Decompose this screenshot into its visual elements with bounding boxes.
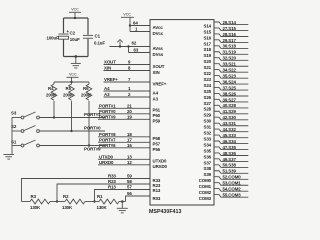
svg-text:53.COM1: 53.COM1 xyxy=(223,181,242,186)
svg-text:27.S15: 27.S15 xyxy=(223,26,237,31)
pin 30 S18 xyxy=(203,44,248,53)
svg-text:R13: R13 xyxy=(108,185,116,190)
resistor R3 130K xyxy=(22,194,51,210)
svg-text:48.S36: 48.S36 xyxy=(223,151,237,156)
svg-text:0.1uF: 0.1uF xyxy=(94,40,105,45)
svg-text:VCC: VCC xyxy=(123,12,131,16)
pin 31 S19 xyxy=(203,50,248,59)
power flag VCC1 xyxy=(69,7,81,18)
svg-text:S14: S14 xyxy=(203,23,211,28)
svg-text:31.S19: 31.S19 xyxy=(223,50,237,55)
svg-text:S17: S17 xyxy=(203,41,211,46)
svg-text:S36: S36 xyxy=(203,154,211,159)
svg-text:COM3: COM3 xyxy=(199,196,212,201)
wire net PORT#7 pin xyxy=(98,141,150,143)
resistor R1 130K xyxy=(97,194,120,210)
wire AVss/DVss xyxy=(110,47,151,53)
svg-text:51.S39: 51.S39 xyxy=(223,169,237,174)
svg-text:18: 18 xyxy=(127,132,132,137)
svg-text:S15: S15 xyxy=(203,29,211,34)
svg-text:30.S18: 30.S18 xyxy=(223,44,237,49)
svg-text:AVss: AVss xyxy=(153,46,164,51)
pin 38 S26 xyxy=(203,91,248,100)
IC left pin name labels xyxy=(153,25,168,201)
svg-text:43.S31: 43.S31 xyxy=(223,121,237,126)
pin 29 S17 xyxy=(203,38,248,47)
svg-text:VREF+: VREF+ xyxy=(104,77,118,82)
svg-text:52.COM0: 52.COM0 xyxy=(223,175,242,180)
svg-text:XIN: XIN xyxy=(153,70,160,75)
svg-text:37.S25: 37.S25 xyxy=(223,85,237,90)
svg-text:40.S28: 40.S28 xyxy=(223,103,237,108)
svg-text:PORT#1: PORT#1 xyxy=(84,112,101,117)
pin 47 S35 xyxy=(203,145,248,154)
resistor R2 130K xyxy=(62,194,85,210)
node A (cap loop top) xyxy=(74,17,76,19)
svg-text:P60: P60 xyxy=(153,113,161,118)
svg-text:C2: C2 xyxy=(70,31,76,36)
svg-text:41.S29: 41.S29 xyxy=(223,109,237,114)
pin 32 S20 xyxy=(203,56,248,65)
svg-text:R03: R03 xyxy=(153,196,161,201)
wire row1 (PORT#1) xyxy=(40,117,106,119)
svg-text:49.S37: 49.S37 xyxy=(223,157,237,162)
svg-text:S21: S21 xyxy=(203,65,211,70)
svg-text:PORT#0: PORT#0 xyxy=(84,126,101,131)
svg-text:19: 19 xyxy=(127,114,132,119)
wire AVcc xyxy=(130,25,150,27)
svg-text:R1: R1 xyxy=(97,194,103,199)
svg-text:PORT#1: PORT#1 xyxy=(99,103,116,108)
svg-text:PORT#9: PORT#9 xyxy=(99,114,116,119)
pin 48 S36 xyxy=(203,151,248,160)
wire cap loop right edge xyxy=(87,18,89,57)
pin 54 COM2 xyxy=(199,187,249,196)
ground G1 below cap loop xyxy=(71,57,81,69)
svg-text:54.COM2: 54.COM2 xyxy=(223,187,242,192)
svg-text:XOUT: XOUT xyxy=(104,60,116,65)
node B (cap loop bottom) xyxy=(74,55,77,58)
wire VREF+ xyxy=(104,81,151,83)
wire cap loop left edge xyxy=(63,18,65,57)
power flag VCC3 (pullups) xyxy=(67,72,79,82)
pin 26 S14 xyxy=(203,20,248,29)
pin 34 S22 xyxy=(203,68,248,77)
svg-text:S38: S38 xyxy=(203,166,211,171)
node I (R5 to row2) xyxy=(70,130,72,132)
resistor R5 200K xyxy=(63,82,74,131)
svg-text:28.S16: 28.S16 xyxy=(223,32,237,37)
wire net PORT#9 pin xyxy=(98,118,150,120)
pin 52 COM0 xyxy=(199,175,249,184)
svg-text:13: 13 xyxy=(127,154,132,159)
svg-text:S24: S24 xyxy=(203,83,211,88)
pin 27 S15 xyxy=(203,26,248,35)
wire net PORT#1 pin xyxy=(98,107,150,109)
pin 40 S28 xyxy=(203,103,248,112)
svg-text:32.S20: 32.S20 xyxy=(223,56,237,61)
svg-text:UTXD0: UTXD0 xyxy=(153,159,168,164)
pin 28 S16 xyxy=(203,32,248,41)
svg-text:S23: S23 xyxy=(203,77,211,82)
svg-text:20: 20 xyxy=(127,109,132,114)
pin 36 S24 xyxy=(203,79,248,88)
capacitor C2 10uF electrolytic xyxy=(47,29,81,42)
svg-text:57: 57 xyxy=(127,185,132,190)
svg-text:S22: S22 xyxy=(203,71,211,76)
svg-text:36.S24: 36.S24 xyxy=(223,79,237,84)
pin 42 S30 xyxy=(203,115,248,124)
svg-text:XOUT: XOUT xyxy=(153,64,165,69)
svg-text:R3: R3 xyxy=(31,194,37,199)
svg-text:R13: R13 xyxy=(153,188,161,193)
svg-text:AVcc: AVcc xyxy=(153,25,164,30)
resistor R4 200K xyxy=(46,82,57,118)
svg-text:DVss: DVss xyxy=(153,52,164,57)
pin 35 S23 xyxy=(203,74,248,83)
svg-text:COM2: COM2 xyxy=(199,190,212,195)
svg-text:COM1: COM1 xyxy=(199,184,212,189)
svg-text:S20: S20 xyxy=(203,59,211,64)
svg-text:PORT#8: PORT#8 xyxy=(99,132,116,137)
svg-text:R4: R4 xyxy=(48,86,54,91)
svg-text:130K: 130K xyxy=(97,205,108,210)
svg-text:29.S17: 29.S17 xyxy=(223,38,237,43)
svg-text:200K: 200K xyxy=(81,93,92,98)
wire R13 net xyxy=(95,190,151,202)
svg-text:S33: S33 xyxy=(203,137,211,142)
pin 50 S38 xyxy=(203,163,248,172)
node K (pullup rail) xyxy=(70,81,72,83)
wire net PORT#0 pin xyxy=(98,113,150,115)
svg-text:PORT#9: PORT#9 xyxy=(84,147,101,152)
node D (AVss junction) xyxy=(127,45,129,47)
ground G3 (switch bus) xyxy=(3,150,14,159)
wire UTXD0 xyxy=(98,158,150,160)
wire XOUT xyxy=(104,64,151,66)
wire R33 net xyxy=(22,179,151,202)
wire ladder seg1 xyxy=(50,201,65,203)
svg-text:S27: S27 xyxy=(203,101,211,106)
svg-text:42.S30: 42.S30 xyxy=(223,115,237,120)
switch S2 xyxy=(11,124,39,132)
svg-text:59: 59 xyxy=(127,174,132,179)
svg-text:P57: P57 xyxy=(153,142,161,147)
svg-text:56: 56 xyxy=(127,191,132,196)
op IC U1 MSP430F413 xyxy=(150,20,214,205)
svg-text:130K: 130K xyxy=(62,205,73,210)
svg-text:63: 63 xyxy=(134,48,139,53)
svg-text:S16: S16 xyxy=(203,35,211,40)
wire R23 net xyxy=(57,184,150,202)
wire net PORT#8 pin xyxy=(98,136,150,138)
svg-text:R23: R23 xyxy=(108,179,116,184)
wire A4 xyxy=(104,90,151,92)
svg-text:64: 64 xyxy=(133,21,138,26)
svg-text:R5: R5 xyxy=(66,86,72,91)
svg-text:PORT#7: PORT#7 xyxy=(99,137,116,142)
svg-text:A3: A3 xyxy=(104,92,110,97)
svg-text:34.S22: 34.S22 xyxy=(223,68,237,73)
svg-text:S32: S32 xyxy=(203,131,211,136)
wire DVcc xyxy=(130,31,150,33)
svg-text:44.S32: 44.S32 xyxy=(223,127,237,132)
svg-text:S18: S18 xyxy=(203,47,211,52)
svg-text:P59: P59 xyxy=(153,119,161,124)
wire R03 net xyxy=(126,196,151,202)
node H (R4 to row1) xyxy=(53,116,55,118)
svg-text:62: 62 xyxy=(132,41,137,46)
resistor R6 200K xyxy=(81,82,92,146)
wire ladder seg2 xyxy=(85,201,99,203)
svg-text:130K: 130K xyxy=(30,205,41,210)
svg-text:58: 58 xyxy=(127,179,132,184)
svg-text:P58: P58 xyxy=(153,136,161,141)
wire ladder seg3 xyxy=(119,201,126,203)
pin 45 S33 xyxy=(203,133,248,142)
svg-text:VCC: VCC xyxy=(69,72,77,76)
svg-text:35.S23: 35.S23 xyxy=(223,74,237,79)
switch S3 xyxy=(11,111,39,119)
svg-text:200K: 200K xyxy=(63,93,74,98)
svg-text:50.S38: 50.S38 xyxy=(223,163,237,168)
svg-text:S39: S39 xyxy=(203,172,211,177)
svg-text:47.S35: 47.S35 xyxy=(223,145,237,150)
wire pullup rail xyxy=(54,81,89,83)
svg-text:200K: 200K xyxy=(46,93,57,98)
wire XIN xyxy=(104,70,151,72)
svg-text:39.S27: 39.S27 xyxy=(223,97,237,102)
svg-text:S26: S26 xyxy=(203,95,211,100)
ground G2 (ladder) xyxy=(117,202,128,213)
svg-text:MSP430F413: MSP430F413 xyxy=(149,209,181,215)
svg-text:17: 17 xyxy=(127,137,132,142)
svg-text:COM0: COM0 xyxy=(199,178,212,183)
pin 39 S27 xyxy=(203,97,248,106)
svg-text:21: 21 xyxy=(127,103,132,108)
svg-text:S19: S19 xyxy=(203,53,211,58)
svg-text:S3: S3 xyxy=(11,111,17,116)
pin 51 S39 xyxy=(203,169,248,178)
svg-text:10uF: 10uF xyxy=(70,37,80,42)
svg-text:UTXD0: UTXD0 xyxy=(99,154,114,159)
wire switch bus xyxy=(11,118,13,151)
svg-text:26.S14: 26.S14 xyxy=(223,20,237,25)
wire row3 (PORT#9) xyxy=(40,145,106,147)
wire cap loop top edge xyxy=(64,17,89,19)
svg-text:38.S26: 38.S26 xyxy=(223,91,237,96)
svg-text:S37: S37 xyxy=(203,160,211,165)
svg-text:100uF: 100uF xyxy=(47,35,60,40)
svg-text:S35: S35 xyxy=(203,148,211,153)
svg-text:33.S21: 33.S21 xyxy=(223,62,237,67)
switch S1 xyxy=(11,140,39,147)
power arrow (AVss tie) xyxy=(117,40,122,48)
svg-text:45.S33: 45.S33 xyxy=(223,133,237,138)
pin 53 COM1 xyxy=(199,181,249,190)
svg-text:S29: S29 xyxy=(203,113,211,118)
node F (R23 tap) xyxy=(56,200,58,202)
svg-text:A4: A4 xyxy=(153,90,159,95)
wire cap loop bottom edge xyxy=(64,56,89,58)
svg-text:C1: C1 xyxy=(95,33,101,38)
wire net PORT#6 pin xyxy=(98,147,150,149)
power flag VCC2 (IC supply) xyxy=(121,12,134,31)
wire URXD0 xyxy=(98,164,150,166)
svg-text:46.S34: 46.S34 xyxy=(223,139,237,144)
svg-text:12: 12 xyxy=(127,160,132,165)
svg-text:VREF+: VREF+ xyxy=(153,81,167,86)
svg-text:16: 16 xyxy=(127,143,132,148)
svg-text:A4: A4 xyxy=(104,86,110,91)
svg-text:VCC: VCC xyxy=(71,7,79,11)
svg-text:R33: R33 xyxy=(108,174,116,179)
svg-text:S31: S31 xyxy=(203,125,211,130)
pin 46 S34 xyxy=(203,139,248,148)
svg-text:P61: P61 xyxy=(153,108,161,113)
node E (ladder right) xyxy=(121,200,124,203)
svg-text:R2: R2 xyxy=(63,194,69,199)
svg-text:P56: P56 xyxy=(153,147,161,152)
capacitor C1 0.1uF xyxy=(83,33,105,45)
pin 41 S29 xyxy=(203,109,248,118)
pin 43 S31 xyxy=(203,121,248,130)
svg-text:DVcc: DVcc xyxy=(153,31,164,36)
svg-text:55.COM3: 55.COM3 xyxy=(223,193,242,198)
svg-text:URXD0: URXD0 xyxy=(99,160,114,165)
svg-text:R6: R6 xyxy=(83,86,89,91)
pin 37 S25 xyxy=(203,85,248,94)
wire row2 (PORT#0) xyxy=(40,130,106,132)
node C (AVcc/DVcc junction) xyxy=(129,24,131,26)
wire A3 xyxy=(104,96,151,98)
pin 55 COM3 xyxy=(199,193,249,202)
node J (R6 to row3) xyxy=(88,144,90,146)
svg-text:S34: S34 xyxy=(203,142,211,147)
svg-text:XIN: XIN xyxy=(104,66,111,71)
svg-text:A3: A3 xyxy=(153,96,159,101)
svg-text:S28: S28 xyxy=(203,107,211,112)
svg-text:PORT#0: PORT#0 xyxy=(99,109,116,114)
pin 33 S21 xyxy=(203,62,248,71)
pin 44 S32 xyxy=(203,127,248,136)
pin 49 S37 xyxy=(203,157,248,166)
node G (R13 tap) xyxy=(93,200,95,202)
svg-text:S30: S30 xyxy=(203,119,211,124)
svg-text:URXD0: URXD0 xyxy=(153,164,168,169)
svg-text:S25: S25 xyxy=(203,89,211,94)
